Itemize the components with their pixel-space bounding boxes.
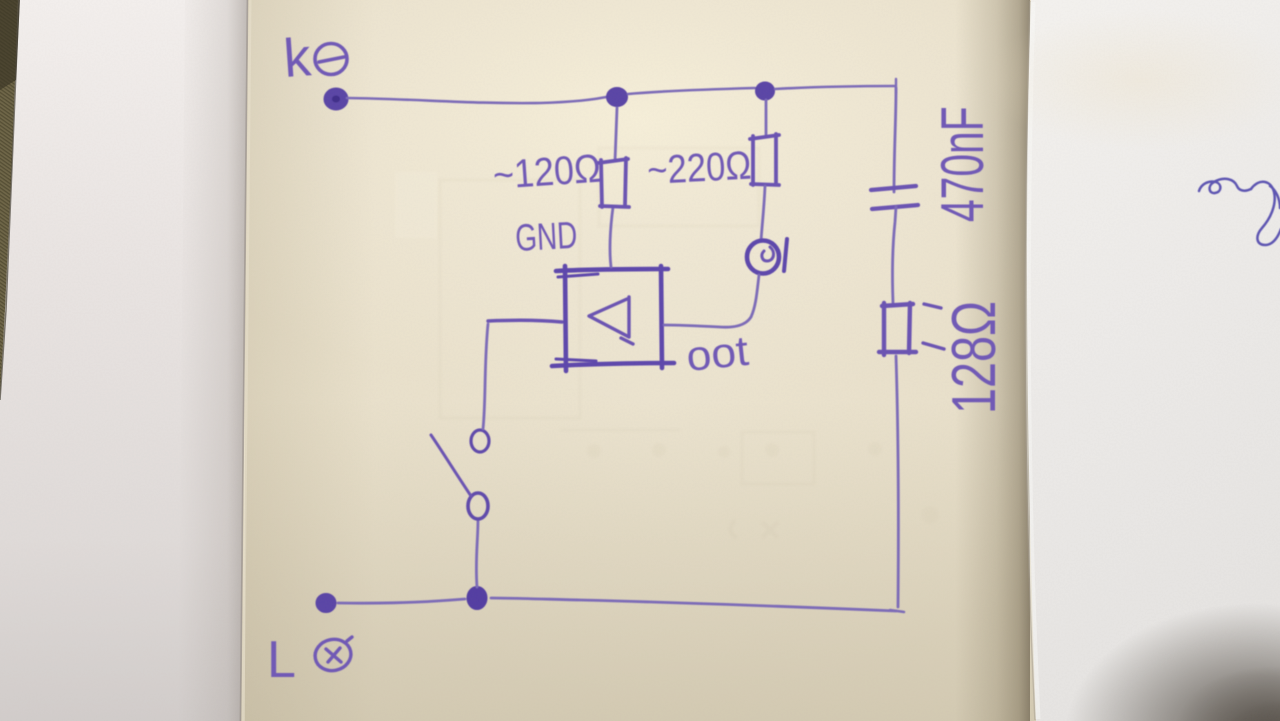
node L circle-x symbol xyxy=(312,636,354,674)
node K terminal dot xyxy=(325,89,348,110)
op-amp U1 box xyxy=(552,266,674,371)
wire: switch top contact up and to op-amp xyxy=(483,324,488,429)
op-amp U1 triangle xyxy=(589,297,633,344)
finger shadow bottom-right corner xyxy=(1065,603,1280,721)
ghost impressions (embossed from previous sheet) xyxy=(440,148,814,484)
switch S1 bottom contact xyxy=(468,493,488,519)
junction A dot xyxy=(607,88,628,107)
label 128R xyxy=(939,301,1009,414)
junction C dot xyxy=(467,587,487,610)
wire: right branch down to capacitor xyxy=(894,88,896,192)
lamp/indicator body xyxy=(747,241,779,274)
wire: component X down to bottom-right corner xyxy=(896,356,898,607)
wire: capacitor to component X xyxy=(892,207,896,303)
label GND xyxy=(514,215,578,260)
switch S1 lever xyxy=(431,435,471,496)
wire: junction C to node L xyxy=(338,599,465,603)
component X body (128R) xyxy=(879,303,916,355)
right white paper xyxy=(980,0,1280,721)
wire: R1 to op-amp top pin xyxy=(610,207,613,267)
corner overshoot tick xyxy=(895,79,897,93)
capacitor C1 top plate xyxy=(871,186,916,190)
label ~220R xyxy=(646,144,752,193)
label 470nF xyxy=(929,106,996,222)
wire: junction C up to switch xyxy=(476,520,478,587)
label oot (out) xyxy=(684,327,751,380)
resistor R2 body xyxy=(750,134,779,185)
table fabric wedge top-left xyxy=(0,0,20,400)
lamp inner curl xyxy=(762,247,774,261)
wire: junction A to junction B xyxy=(628,88,755,94)
wire: junction A down to R1 xyxy=(615,108,617,161)
wire: bottom run right corner to junction C xyxy=(491,598,896,611)
corner overshoot xyxy=(890,610,904,612)
wire: R2 down to lamp xyxy=(761,186,765,241)
component X side dashes xyxy=(923,304,944,349)
wire: lamp to op-amp output xyxy=(664,275,759,327)
INK: hand-drawn circuit xyxy=(267,27,1009,689)
lamp side dash xyxy=(784,239,787,271)
left white paper xyxy=(0,0,250,721)
resistor R1 body xyxy=(598,158,629,207)
node L terminal dot xyxy=(316,594,336,613)
wire: junction B to top-right corner xyxy=(775,86,895,89)
junction B dot xyxy=(756,82,775,100)
switch S1 top contact xyxy=(471,430,489,452)
node K minus symbol xyxy=(315,44,347,75)
node L terminal label xyxy=(267,631,296,689)
wire: junction B down to R2 xyxy=(765,100,768,136)
capacitor C1 bottom plate xyxy=(872,205,918,209)
label ~120R xyxy=(492,147,603,198)
shadow cast by right paper onto main paper xyxy=(955,0,1030,721)
wire top: K node to junction A xyxy=(347,96,611,103)
node K terminal label xyxy=(282,27,314,89)
handwriting scribble on right paper xyxy=(1199,179,1280,245)
